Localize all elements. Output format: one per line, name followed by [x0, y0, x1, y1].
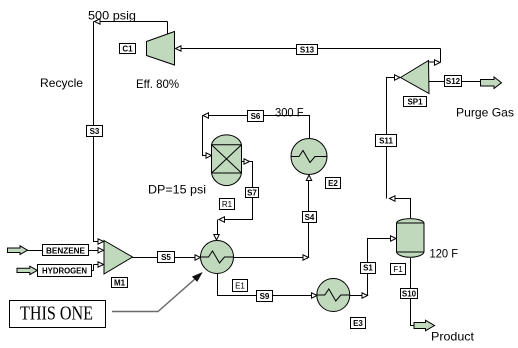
svg-text:BENZENE: BENZENE	[46, 247, 86, 256]
svg-text:S1: S1	[363, 264, 373, 273]
label box BENZENE	[43, 245, 89, 256]
wire S5 mixer to E1	[133, 257, 196, 259]
wire 500 psig recycle top line	[94, 22, 168, 242]
svg-text:Purge Gas: Purge Gas	[456, 106, 514, 120]
svg-text:S3: S3	[90, 127, 100, 136]
node arrow into E2 bottom	[306, 175, 311, 181]
label box M1	[112, 278, 128, 288]
svg-text:S5: S5	[161, 253, 171, 262]
node arrow E3 out corner	[362, 293, 368, 298]
node arrow S13 out of SP1	[435, 60, 441, 65]
node arrow into E1 top	[214, 235, 219, 241]
stream box S3	[87, 126, 103, 137]
stream box S4	[303, 212, 317, 223]
node arrow S11 corner	[390, 196, 396, 201]
svg-text:S11: S11	[379, 137, 393, 146]
node arrow into E1 left	[195, 255, 201, 260]
label box C1	[120, 44, 136, 54]
svg-text:S10: S10	[402, 290, 417, 299]
svg-text:Recycle: Recycle	[40, 76, 83, 90]
svg-text:HYDROGEN: HYDROGEN	[42, 267, 87, 276]
wire S7 reactor outlet to E1 top	[218, 162, 253, 236]
svg-text:Product: Product	[431, 330, 475, 344]
compressor C1	[147, 32, 175, 66]
svg-text:300 F: 300 F	[275, 106, 304, 120]
splitter SP1	[401, 61, 430, 94]
label box E1	[233, 280, 248, 292]
wire S12 purge	[429, 81, 481, 83]
label box R1	[220, 199, 235, 210]
svg-text:F1: F1	[393, 265, 403, 274]
svg-text:E2: E2	[328, 179, 338, 188]
node arrow into C1	[176, 46, 182, 51]
mixer M1	[104, 241, 133, 275]
reactor R1	[212, 135, 242, 186]
flash drum F1	[397, 219, 425, 258]
node corner arrow at 500 psig	[95, 19, 101, 24]
node arrow into R1	[206, 153, 212, 158]
node arrow benzene into M1	[98, 248, 104, 253]
svg-text:S7: S7	[247, 189, 257, 198]
svg-text:C1: C1	[122, 45, 133, 54]
label box SP1	[404, 97, 427, 107]
svg-text:E1: E1	[235, 282, 245, 291]
stream box S10	[401, 289, 418, 299]
stream box S13	[297, 45, 318, 55]
svg-text:THIS ONE: THIS ONE	[20, 303, 93, 325]
block arrow product	[414, 320, 435, 330]
block arrow hydrogen feed	[17, 266, 37, 274]
block arrow purge gas	[481, 77, 502, 89]
label box E3	[351, 318, 366, 329]
stream box S7	[246, 188, 259, 198]
stream box S6	[248, 111, 264, 122]
wire F1 bottom to product	[411, 258, 414, 326]
label box HYDROGEN	[38, 265, 92, 277]
stream box S1	[361, 263, 376, 274]
stream box S9	[257, 291, 273, 302]
stream box S11	[376, 135, 397, 147]
heat exchanger E1	[201, 241, 234, 274]
label box F1	[391, 264, 406, 275]
annotation THIS ONE box	[10, 301, 106, 328]
wire hydrogen	[92, 265, 99, 271]
wire S11 from drum to splitter	[387, 78, 411, 219]
svg-text:S6: S6	[251, 112, 261, 121]
stream box S12	[445, 76, 462, 87]
node arrow R1 outlet	[244, 159, 250, 164]
svg-text:S9: S9	[260, 292, 270, 301]
heat exchanger E2	[291, 139, 327, 175]
node arrow into E3	[312, 293, 318, 298]
svg-text:R1: R1	[222, 200, 233, 209]
svg-text:S13: S13	[300, 46, 315, 55]
node arrow recycle into M1	[98, 239, 104, 244]
wire E1 bottom to E3	[218, 274, 312, 296]
svg-text:500 psig: 500 psig	[88, 9, 136, 23]
svg-text:S4: S4	[305, 213, 315, 222]
svg-text:E3: E3	[353, 319, 363, 328]
annotation arrow to E1	[112, 276, 198, 311]
wire S13 inlet to compressor	[181, 49, 441, 63]
heat exchanger E3	[317, 279, 350, 312]
wire SP1 top stub	[429, 61, 434, 63]
node arrow into F1	[391, 236, 397, 241]
block arrow benzene feed	[8, 246, 28, 255]
node arrow into SP1	[395, 75, 401, 80]
stream box S5	[158, 252, 175, 263]
node arrow E1 out corner	[303, 255, 309, 260]
node arrow hydrogen into M1	[98, 262, 104, 267]
wire E1 right to E2 bottom	[234, 181, 309, 258]
svg-text:DP=15 psi: DP=15 psi	[148, 183, 206, 197]
node arrow S6 corner	[203, 113, 209, 118]
label box E2	[326, 178, 341, 189]
wire S6 from E2 top to reactor	[203, 116, 310, 156]
wire E3 right to drum F1	[350, 239, 391, 296]
svg-text:Eff. 80%: Eff. 80%	[136, 77, 179, 91]
node arrow S7 corner	[219, 217, 225, 222]
svg-text:M1: M1	[114, 279, 126, 288]
svg-text:S12: S12	[446, 77, 461, 86]
wire benzene	[28, 249, 99, 251]
svg-text:SP1: SP1	[407, 98, 423, 107]
svg-text:120 F: 120 F	[430, 247, 459, 261]
